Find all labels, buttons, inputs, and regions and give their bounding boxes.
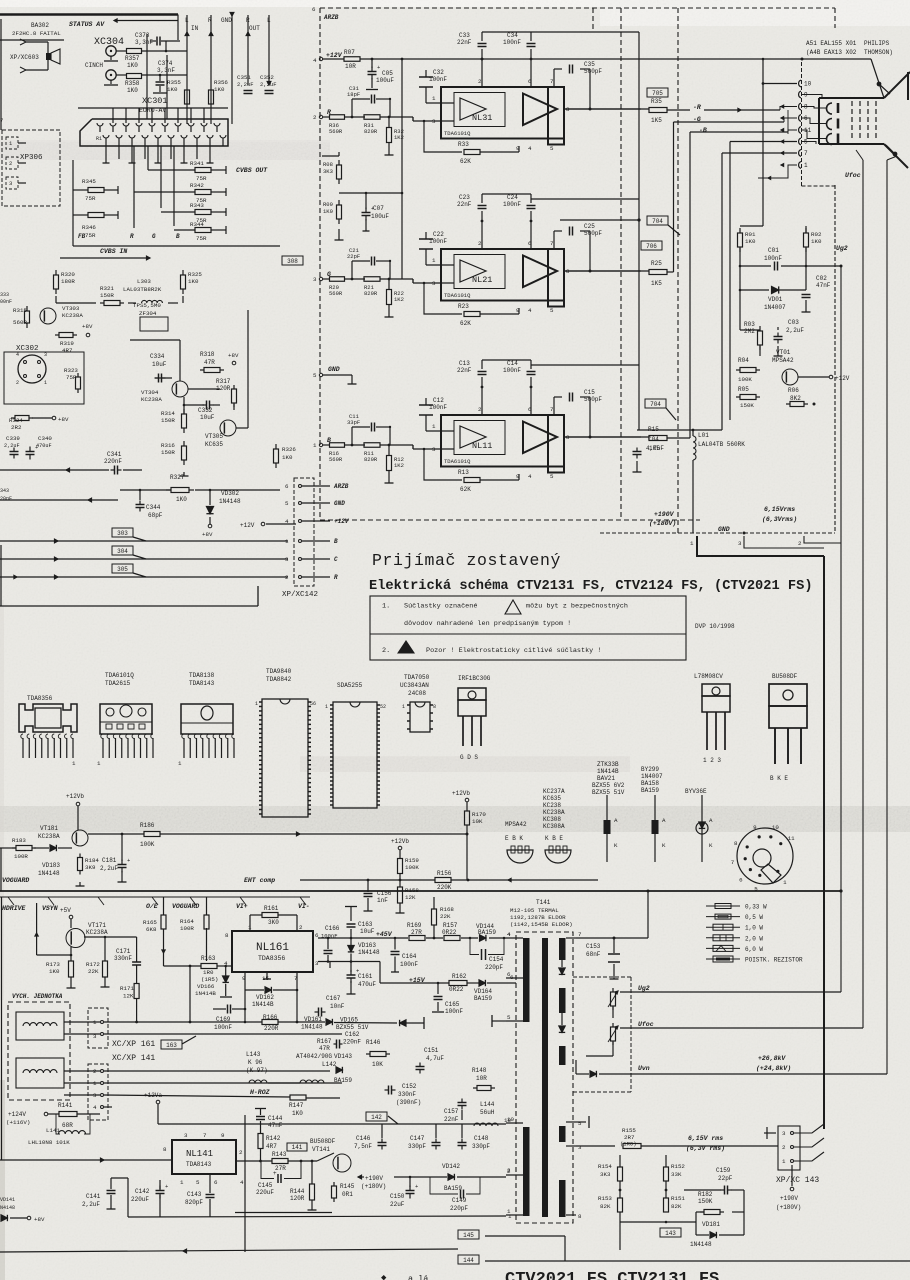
svg-text:8: 8: [433, 704, 436, 710]
svg-text:2.: 2.: [382, 647, 390, 655]
svg-text:C166: C166: [325, 925, 340, 932]
svg-text:68nF: 68nF: [586, 951, 601, 958]
svg-text:330pF: 330pF: [472, 1143, 490, 1150]
svg-text:K: K: [709, 842, 713, 849]
svg-text:3K3: 3K3: [323, 168, 333, 175]
svg-text:C162: C162: [345, 1031, 360, 1038]
svg-text:KC635: KC635: [543, 795, 561, 802]
svg-text:C150: C150: [390, 1193, 405, 1200]
svg-text:R142: R142: [266, 1135, 281, 1142]
svg-text:R167: R167: [317, 1038, 332, 1045]
svg-text:220R: 220R: [264, 1025, 279, 1032]
svg-text:VD142: VD142: [442, 1163, 460, 1170]
svg-text:1K0: 1K0: [188, 278, 199, 285]
svg-text:DVP 10/1998: DVP 10/1998: [695, 623, 735, 630]
svg-text:VD163: VD163: [358, 942, 376, 949]
svg-text:1: 1: [285, 538, 289, 545]
svg-text:R182: R182: [698, 1191, 713, 1198]
svg-text:VD01: VD01: [768, 296, 783, 303]
svg-text:CINCH: CINCH: [85, 62, 103, 69]
svg-text:2R2: 2R2: [11, 424, 22, 431]
svg-text:TDA6101Q: TDA6101Q: [444, 458, 471, 465]
svg-text:B: B: [176, 233, 180, 240]
svg-text:1K0: 1K0: [811, 238, 822, 245]
svg-text:1: 1: [783, 879, 787, 886]
svg-text:R141: R141: [58, 1102, 73, 1109]
svg-text:2: 2: [507, 1168, 511, 1175]
svg-text:6: 6: [507, 971, 511, 978]
svg-text:R162: R162: [452, 973, 467, 980]
svg-text:143: 143: [665, 1230, 676, 1237]
svg-text:4R7: 4R7: [62, 347, 73, 354]
svg-text:1: 1: [402, 704, 405, 710]
svg-text:3,3nF: 3,3nF: [135, 39, 153, 46]
svg-text:(+180V): (+180V): [649, 520, 676, 527]
svg-text:XP/XC142: XP/XC142: [282, 591, 318, 599]
svg-text:C07: C07: [373, 205, 384, 212]
svg-text:1N4007: 1N4007: [641, 773, 663, 780]
svg-text:VT171: VT171: [88, 922, 106, 929]
svg-text:BU508DF: BU508DF: [310, 1138, 336, 1145]
svg-text:C24: C24: [507, 194, 518, 201]
svg-text:N4148: N4148: [0, 1205, 15, 1211]
svg-text:TDA8143: TDA8143: [186, 1161, 212, 1168]
svg-text:STATUS AV: STATUS AV: [69, 21, 105, 28]
svg-text:R169: R169: [407, 922, 422, 929]
svg-text:8: 8: [578, 1213, 582, 1220]
svg-text:144: 144: [463, 1257, 474, 1264]
svg-text:R04: R04: [738, 357, 749, 364]
svg-text:1K0: 1K0: [745, 238, 756, 245]
svg-text:CVBS OUT: CVBS OUT: [236, 167, 268, 174]
svg-text:C146: C146: [356, 1135, 371, 1142]
svg-text:R355: R355: [167, 79, 181, 86]
svg-text:+12V: +12V: [835, 375, 850, 382]
svg-text:+12Va: +12Va: [144, 1092, 162, 1099]
svg-text:12K: 12K: [405, 894, 416, 901]
svg-text:1K0: 1K0: [167, 86, 178, 93]
svg-text:1 2 3: 1 2 3: [703, 757, 721, 764]
svg-text:R326: R326: [282, 446, 296, 453]
svg-text:1K0: 1K0: [214, 86, 225, 93]
svg-text:10R: 10R: [476, 1075, 487, 1082]
svg-text:0,5 W: 0,5 W: [745, 914, 763, 921]
svg-text:7: 7: [0, 117, 3, 124]
svg-text:ARZB: ARZB: [333, 483, 349, 490]
svg-text:(+180V): (+180V): [361, 1183, 386, 1190]
svg-text:VYCH. JEDNOTKA: VYCH. JEDNOTKA: [12, 993, 63, 1000]
svg-text:1N4148: 1N4148: [38, 870, 60, 877]
svg-text:-R: -R: [693, 104, 701, 111]
svg-text:Prijímač zostavený: Prijímač zostavený: [372, 551, 561, 570]
svg-text:C: C: [334, 556, 338, 563]
svg-text:C171: C171: [116, 948, 131, 955]
svg-text:C25: C25: [584, 223, 595, 230]
svg-text:VI+: VI+: [236, 903, 248, 910]
svg-text:304: 304: [117, 548, 128, 555]
svg-text:47nF: 47nF: [816, 282, 831, 289]
svg-text:100nF: 100nF: [445, 1008, 463, 1015]
svg-text:C145: C145: [258, 1182, 273, 1189]
svg-text:6,15V rms: 6,15V rms: [688, 1135, 723, 1142]
svg-text:10: 10: [772, 824, 779, 831]
svg-text:560R: 560R: [329, 456, 343, 463]
svg-text:R327: R327: [170, 474, 185, 481]
svg-text:R317: R317: [216, 378, 231, 385]
svg-text:R156: R156: [437, 870, 452, 877]
svg-text:62K: 62K: [460, 158, 471, 165]
svg-text:820pF: 820pF: [185, 1199, 203, 1206]
svg-text:C01: C01: [768, 247, 779, 254]
svg-text:BY299: BY299: [641, 766, 659, 773]
svg-text:22nF: 22nF: [457, 39, 472, 46]
svg-text:5: 5: [313, 372, 317, 379]
svg-text:5: 5: [285, 500, 289, 507]
svg-text:3: 3: [184, 1132, 188, 1139]
svg-text:T141: T141: [536, 899, 551, 906]
svg-text:2,2uF: 2,2uF: [100, 865, 118, 872]
svg-text:1K0: 1K0: [282, 454, 293, 461]
svg-text:C23: C23: [459, 194, 470, 201]
svg-text:Uvn: Uvn: [638, 1065, 650, 1072]
svg-text:10uF: 10uF: [360, 928, 375, 935]
svg-text:A: A: [614, 817, 618, 824]
svg-text:47R: 47R: [204, 359, 215, 366]
svg-text:R154: R154: [598, 1163, 612, 1170]
svg-text:C02: C02: [816, 275, 827, 282]
svg-text:Ug2: Ug2: [638, 985, 650, 992]
svg-text:R323: R323: [64, 367, 78, 374]
svg-text:UC3843AN: UC3843AN: [400, 682, 429, 689]
svg-text:330pF: 330pF: [408, 1143, 426, 1150]
svg-text:1: 1: [97, 760, 101, 767]
svg-text:6: 6: [312, 6, 316, 13]
svg-text:308: 308: [287, 258, 298, 265]
svg-text:1N4148: 1N4148: [219, 498, 241, 505]
svg-text:5: 5: [196, 1179, 200, 1186]
svg-text:R159: R159: [405, 857, 419, 864]
svg-text:1K0: 1K0: [323, 208, 333, 215]
svg-text:75R: 75R: [196, 235, 207, 242]
svg-text:220K: 220K: [437, 884, 452, 891]
svg-text:SDA5255: SDA5255: [337, 682, 363, 689]
svg-text:BZX55 51V: BZX55 51V: [592, 789, 625, 796]
svg-text:BZX55 51V: BZX55 51V: [336, 1024, 369, 1031]
svg-text:R25: R25: [651, 260, 662, 267]
svg-text:C157: C157: [444, 1108, 459, 1115]
svg-text:VOGUARD: VOGUARD: [2, 877, 29, 884]
svg-text:GND: GND: [328, 366, 340, 373]
svg-text:A51 EAL155 X01: A51 EAL155 X01: [806, 40, 857, 47]
svg-text:BA159: BA159: [444, 1185, 462, 1192]
svg-text:L144: L144: [480, 1101, 495, 1108]
svg-text:+12V: +12V: [240, 522, 255, 529]
svg-text:3: 3: [782, 1130, 786, 1137]
svg-text:+12V: +12V: [334, 518, 350, 525]
svg-text:C34: C34: [507, 32, 518, 39]
svg-text:R33: R33: [458, 141, 469, 148]
svg-text:100R: 100R: [180, 925, 194, 932]
svg-text:10K: 10K: [372, 1061, 383, 1068]
svg-text:a lá: a lá: [408, 1274, 428, 1280]
svg-text:TDA8842: TDA8842: [266, 676, 292, 683]
svg-text:KC308: KC308: [543, 816, 561, 823]
svg-text:470uF: 470uF: [358, 981, 376, 988]
svg-text:7: 7: [804, 150, 808, 157]
svg-text:NL141: NL141: [186, 1149, 213, 1159]
svg-text:141: 141: [292, 1144, 303, 1151]
svg-text:TDA2615: TDA2615: [105, 680, 131, 687]
svg-text:C35: C35: [584, 61, 595, 68]
svg-text:TDA6101Q: TDA6101Q: [444, 130, 471, 137]
svg-text:(6,3V rms): (6,3V rms): [686, 1145, 725, 1152]
svg-text:3: 3: [313, 276, 317, 283]
svg-text:KC238A: KC238A: [141, 396, 162, 403]
svg-text:1: 1: [690, 540, 694, 547]
svg-text:3K0: 3K0: [268, 919, 279, 926]
svg-text:+12Vb: +12Vb: [452, 790, 470, 797]
svg-text:O/E: O/E: [146, 903, 158, 910]
svg-text:TDA8143: TDA8143: [189, 680, 215, 687]
svg-text:THOMSON): THOMSON): [864, 49, 893, 56]
svg-text:+: +: [356, 968, 359, 975]
svg-text:4: 4: [507, 931, 511, 938]
svg-text:XP/XC 143: XP/XC 143: [776, 1176, 819, 1185]
svg-text:163: 163: [166, 1042, 177, 1049]
svg-text:2,2uF: 2,2uF: [786, 327, 804, 334]
svg-text:NL161: NL161: [256, 942, 289, 954]
svg-text:!: !: [506, 608, 509, 614]
svg-text:L303: L303: [137, 278, 151, 285]
svg-text:C153: C153: [586, 943, 601, 950]
svg-text:704: 704: [650, 401, 661, 408]
svg-text:100nF: 100nF: [503, 201, 521, 208]
svg-text:1K0: 1K0: [127, 87, 138, 94]
svg-text:C154: C154: [489, 956, 504, 963]
svg-text:A: A: [662, 817, 666, 824]
svg-text:(+180V): (+180V): [776, 1204, 801, 1211]
svg-text:L143: L143: [246, 1051, 261, 1058]
svg-text:2,2uF: 2,2uF: [237, 81, 254, 88]
svg-text:1: 1: [325, 704, 328, 710]
svg-text:6,0 W: 6,0 W: [745, 946, 763, 953]
svg-text:150R: 150R: [161, 417, 175, 424]
svg-text:CTV2021 FS CTV2131 FS: CTV2021 FS CTV2131 FS: [505, 1270, 719, 1280]
svg-text:2: 2: [782, 1144, 786, 1151]
svg-text:56uH: 56uH: [480, 1109, 495, 1116]
svg-text:C159: C159: [716, 1167, 731, 1174]
svg-text:3: 3: [9, 180, 12, 187]
svg-text:LAL03TB8R2K: LAL03TB8R2K: [123, 286, 162, 293]
svg-text:R145: R145: [340, 1183, 355, 1190]
svg-text:1,0 W: 1,0 W: [745, 925, 763, 932]
svg-text:+5V: +5V: [60, 907, 71, 914]
svg-text:(+116V): (+116V): [6, 1119, 30, 1126]
svg-text:8: 8: [734, 840, 738, 847]
svg-text:305: 305: [117, 566, 128, 573]
svg-text:BZX55 6V2: BZX55 6V2: [592, 782, 625, 789]
svg-text:R356: R356: [214, 79, 228, 86]
svg-text:NL31: NL31: [472, 113, 492, 123]
svg-text:R346: R346: [82, 224, 96, 231]
svg-text:R320: R320: [61, 271, 75, 278]
svg-text:C165: C165: [445, 1001, 460, 1008]
svg-text:820R: 820R: [364, 128, 378, 135]
svg-text:100K: 100K: [738, 376, 752, 383]
svg-text:2,2uF: 2,2uF: [82, 1201, 100, 1208]
svg-text:1: 1: [507, 1208, 511, 1215]
svg-text:100nF: 100nF: [321, 933, 338, 940]
svg-text:E B K: E B K: [505, 835, 523, 842]
svg-text:706: 706: [646, 243, 657, 250]
svg-text:CVBS IN: CVBS IN: [100, 248, 127, 255]
svg-text:L142: L142: [322, 1061, 337, 1068]
svg-text:TDA8356: TDA8356: [258, 955, 285, 962]
svg-text:75R: 75R: [85, 232, 96, 239]
svg-text:1N414B: 1N414B: [195, 990, 216, 997]
svg-text:R173: R173: [46, 961, 60, 968]
svg-text:0R22: 0R22: [449, 986, 464, 993]
svg-text:100nF: 100nF: [503, 367, 521, 374]
svg-text:1nF: 1nF: [377, 897, 388, 904]
svg-text:R05: R05: [738, 386, 749, 393]
svg-text:R01: R01: [745, 231, 756, 238]
svg-text:R: R: [130, 233, 134, 240]
svg-text:C147: C147: [410, 1135, 425, 1142]
svg-text:1: 1: [72, 760, 76, 767]
svg-text:R09: R09: [323, 201, 333, 208]
svg-text:G: G: [152, 233, 156, 240]
svg-text:R03: R03: [744, 321, 755, 328]
svg-text:100nF: 100nF: [429, 76, 447, 83]
svg-text:ZF304: ZF304: [139, 310, 157, 317]
svg-text:R315: R315: [13, 307, 27, 314]
svg-text:20nF: 20nF: [0, 496, 12, 502]
svg-text:4: 4: [528, 473, 532, 480]
svg-text:R316: R316: [161, 442, 175, 449]
svg-text:VSYN: VSYN: [42, 905, 58, 912]
svg-text:C351: C351: [237, 74, 251, 81]
svg-text:Elektrická schéma CTV2131 FS,: Elektrická schéma CTV2131 FS, CTV2124 FS…: [369, 579, 813, 594]
svg-text:+12V: +12V: [326, 52, 343, 59]
svg-text:R07: R07: [344, 49, 355, 56]
svg-text:4: 4: [528, 145, 532, 152]
svg-text:NL21: NL21: [472, 275, 492, 285]
svg-text:820R: 820R: [364, 456, 378, 463]
svg-text:150K: 150K: [740, 402, 754, 409]
svg-text:L78M08CV: L78M08CV: [694, 673, 723, 680]
svg-text:L141: L141: [46, 1127, 60, 1134]
svg-text:VD164: VD164: [474, 988, 492, 995]
svg-text:100nF: 100nF: [764, 255, 782, 262]
svg-text:560R: 560R: [329, 128, 343, 135]
svg-text:R318: R318: [200, 351, 215, 358]
svg-text:+: +: [377, 64, 380, 71]
svg-text:2: 2: [16, 380, 19, 386]
svg-text:KC238A: KC238A: [543, 809, 565, 816]
svg-text:220pF: 220pF: [485, 964, 503, 971]
svg-text:R144: R144: [290, 1188, 305, 1195]
svg-text:R35: R35: [651, 98, 662, 105]
svg-text:220pF: 220pF: [450, 1205, 468, 1212]
svg-text:C144: C144: [268, 1115, 283, 1122]
svg-text:1K0: 1K0: [176, 496, 187, 503]
svg-text:1: 1: [804, 162, 808, 169]
svg-text:4: 4: [528, 307, 532, 314]
svg-text:10uF: 10uF: [152, 361, 167, 368]
svg-text:C340: C340: [38, 435, 52, 442]
svg-text:VD161: VD161: [304, 1016, 322, 1023]
svg-text:2: 2: [9, 160, 12, 167]
svg-text:TDA7050: TDA7050: [404, 674, 430, 681]
svg-text:220nF: 220nF: [104, 458, 122, 465]
svg-text:2: 2: [798, 540, 802, 547]
svg-text:2: 2: [285, 574, 289, 581]
svg-text:C32: C32: [433, 69, 444, 76]
svg-text:9: 9: [753, 824, 757, 831]
svg-text:M12-105 TERMAL: M12-105 TERMAL: [510, 907, 559, 914]
svg-text:1: 1: [432, 257, 436, 264]
svg-text:R13: R13: [458, 469, 469, 476]
svg-text:R343: R343: [190, 202, 204, 209]
svg-text:1K5: 1K5: [651, 280, 662, 287]
svg-text:22K: 22K: [88, 968, 99, 975]
svg-text:3: 3: [285, 556, 289, 563]
svg-text:C352: C352: [260, 74, 274, 81]
svg-text:7: 7: [731, 859, 735, 866]
svg-text:+45V: +45V: [376, 931, 393, 938]
svg-text:R143: R143: [272, 1151, 287, 1158]
svg-text:R165: R165: [143, 919, 157, 926]
svg-text:1: 1: [255, 701, 258, 707]
svg-text:C33: C33: [459, 32, 470, 39]
svg-text:+8V: +8V: [58, 416, 69, 423]
svg-text:1: 1: [248, 924, 252, 931]
svg-text:GND: GND: [221, 17, 232, 24]
svg-text:12K: 12K: [123, 993, 134, 1000]
svg-text:75R: 75R: [196, 175, 207, 182]
svg-text:10: 10: [507, 1116, 514, 1123]
svg-text:H-ROZ: H-ROZ: [250, 1089, 270, 1096]
svg-text:A: A: [709, 817, 713, 824]
svg-text:2,2uF: 2,2uF: [260, 81, 277, 88]
svg-text:470uF: 470uF: [36, 443, 52, 449]
svg-text:C143: C143: [187, 1191, 202, 1198]
svg-text:ARZB: ARZB: [323, 14, 339, 21]
svg-text:C163: C163: [358, 921, 373, 928]
svg-text:+190V: +190V: [365, 1175, 383, 1182]
svg-text:180R: 180R: [61, 278, 75, 285]
svg-text:1: 1: [432, 95, 436, 102]
svg-text:AT4042/90G: AT4042/90G: [296, 1053, 332, 1060]
svg-text:6K8: 6K8: [146, 926, 157, 933]
svg-text:R158: R158: [405, 887, 419, 894]
svg-text:R186: R186: [140, 822, 155, 829]
svg-text:5: 5: [550, 307, 554, 314]
svg-text:62K: 62K: [460, 320, 471, 327]
svg-text:C344: C344: [146, 504, 161, 511]
svg-text:4: 4: [16, 352, 19, 358]
svg-text:C05: C05: [382, 70, 393, 77]
svg-text:R342: R342: [190, 182, 204, 189]
svg-text:(6,3Vrms): (6,3Vrms): [762, 516, 797, 523]
svg-text:MPSA42: MPSA42: [505, 821, 527, 828]
svg-text:5: 5: [578, 1120, 582, 1127]
svg-text:3K9: 3K9: [85, 864, 96, 871]
svg-text:NL11: NL11: [472, 441, 492, 451]
svg-text:24C08: 24C08: [408, 690, 426, 697]
svg-text:3: 3: [578, 1144, 582, 1151]
